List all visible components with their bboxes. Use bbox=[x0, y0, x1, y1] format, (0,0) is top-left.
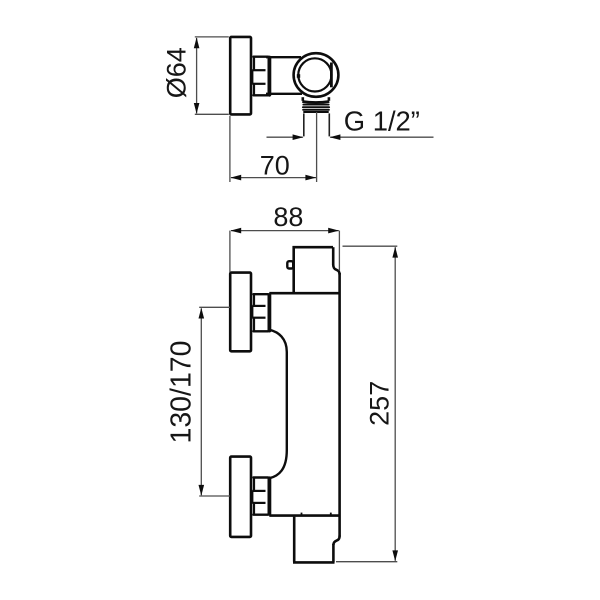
union nut top (front) bbox=[252, 294, 269, 331]
svg-text:70: 70 bbox=[260, 151, 290, 181]
dimension 88 bbox=[230, 231, 340, 272]
cap-to-body chamfer bbox=[333, 264, 339, 274]
bottom parting ticks bbox=[301, 513, 303, 515]
outlet notch bbox=[333, 536, 339, 545]
valve body (side) bbox=[266, 57, 304, 94]
body bottom line bbox=[269, 514, 339, 517]
knob index tick bbox=[297, 74, 300, 78]
wall flange (side) bbox=[230, 37, 251, 115]
collar bottom arc bbox=[302, 102, 329, 103]
bottom outlet block bbox=[293, 517, 340, 563]
collar ears under knob bbox=[303, 97, 329, 101]
knob outer circle (side) bbox=[294, 53, 339, 97]
union nut bottom (front) bbox=[252, 478, 269, 515]
dimension 130/170 bbox=[199, 307, 230, 496]
head cap bbox=[293, 246, 340, 293]
body right edge bbox=[338, 273, 341, 537]
knob flat chord bbox=[330, 63, 333, 88]
wall flange bottom (front) bbox=[230, 457, 251, 537]
svg-text:88: 88 bbox=[273, 202, 303, 232]
outlet pipe stub bbox=[304, 113, 330, 136]
svg-text:257: 257 bbox=[364, 381, 394, 426]
svg-text:130/170: 130/170 bbox=[166, 340, 198, 443]
dimension 257 bbox=[336, 246, 397, 562]
svg-text:G 1/2”: G 1/2” bbox=[344, 106, 420, 137]
wall flange top (front) bbox=[230, 273, 251, 352]
dimension Ø64 bbox=[195, 37, 229, 114]
body top line bbox=[269, 292, 339, 295]
body waist silhouette (pipe between unions) bbox=[270, 330, 287, 478]
cartridge button bbox=[287, 261, 293, 268]
knob inner circle bbox=[298, 58, 331, 91]
dimension G 1/2" bbox=[267, 136, 434, 138]
thread ridges G1/2 outlet bbox=[303, 105, 329, 112]
dimension 70 bbox=[230, 112, 317, 182]
connector nut (side) bbox=[252, 57, 269, 96]
svg-text:Ø64: Ø64 bbox=[162, 47, 192, 98]
